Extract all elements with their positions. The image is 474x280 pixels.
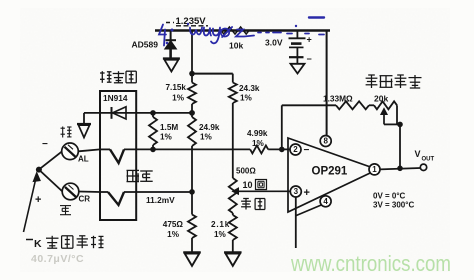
svg-text:2: 2	[293, 145, 298, 154]
svg-text:20k: 20k	[374, 94, 388, 104]
svg-text:11.2mV: 11.2mV	[146, 195, 175, 205]
svg-text:1N914: 1N914	[103, 93, 128, 103]
svg-text:40.7μV/°C: 40.7μV/°C	[31, 253, 84, 265]
svg-text:−: −	[42, 139, 48, 150]
svg-text:1%: 1%	[214, 230, 227, 239]
svg-text:OUT: OUT	[422, 157, 435, 163]
svg-text:−: −	[307, 54, 312, 64]
svg-text:1%: 1%	[252, 139, 265, 148]
svg-text:0V = 0°C: 0V = 0°C	[373, 192, 406, 201]
svg-text:1%: 1%	[167, 230, 180, 239]
svg-text:8: 8	[323, 137, 328, 146]
svg-text:10: 10	[243, 180, 253, 190]
svg-text:3.0V: 3.0V	[265, 38, 283, 48]
svg-text:+: +	[304, 187, 310, 199]
svg-text:−: −	[304, 145, 310, 156]
svg-text:3V = 300°C: 3V = 300°C	[373, 201, 414, 210]
svg-text:4: 4	[323, 197, 328, 206]
svg-text:V: V	[415, 149, 421, 159]
svg-text:K: K	[34, 238, 42, 250]
svg-text:+: +	[35, 194, 41, 206]
svg-text:1.33MΩ: 1.33MΩ	[323, 94, 353, 104]
svg-text:AL: AL	[78, 154, 89, 163]
svg-text:1%: 1%	[240, 94, 253, 103]
svg-text:4.99k: 4.99k	[247, 129, 268, 138]
svg-text:1.5M: 1.5M	[160, 123, 178, 132]
svg-text:3: 3	[294, 187, 299, 196]
svg-text:7.15k: 7.15k	[166, 83, 187, 92]
svg-text:1: 1	[372, 165, 377, 174]
svg-text:1%: 1%	[160, 132, 173, 141]
svg-text:500Ω: 500Ω	[236, 167, 256, 176]
svg-text:475Ω: 475Ω	[163, 220, 184, 229]
svg-text:+: +	[307, 35, 312, 45]
svg-text:OP291: OP291	[312, 166, 348, 178]
svg-text:2.1k: 2.1k	[211, 220, 230, 229]
svg-text:CR: CR	[79, 195, 91, 204]
svg-text:AD589: AD589	[132, 40, 159, 50]
svg-text:1%: 1%	[200, 132, 213, 141]
svg-text:24.9k: 24.9k	[199, 123, 220, 132]
svg-text:24.3k: 24.3k	[239, 84, 260, 93]
svg-text:10k: 10k	[229, 41, 243, 51]
svg-text:1%: 1%	[172, 94, 185, 103]
svg-text:www.cntronics.com: www.cntronics.com	[290, 251, 451, 276]
